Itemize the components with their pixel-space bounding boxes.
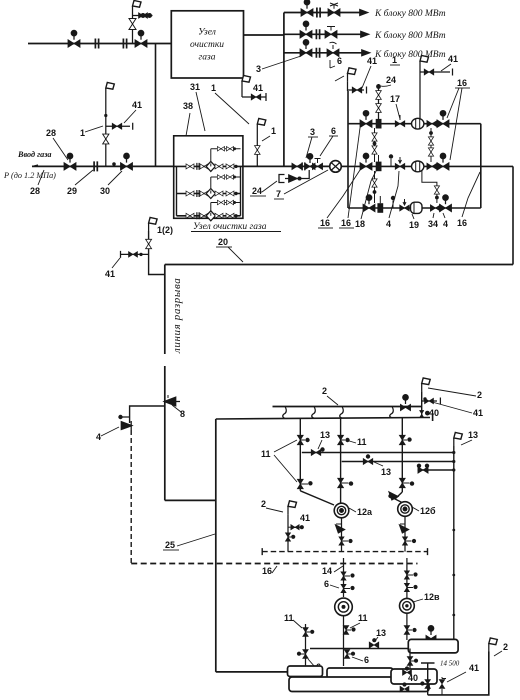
S-drop 2 from manifold (312, 407, 316, 419)
valve 11 on riser x305.5 (303, 628, 315, 637)
lower burner left (335, 598, 353, 616)
svg-text:38: 38 (183, 101, 193, 111)
leader 41 (124, 110, 136, 123)
svg-text:2: 2 (261, 499, 266, 509)
svg-text:41: 41 (469, 663, 479, 673)
wire: stem to lower burner right (406, 558, 408, 598)
label 7 (274, 189, 284, 199)
leader 12v (413, 599, 423, 602)
svg-text:30: 30 (100, 186, 110, 196)
leader 3 (306, 137, 312, 158)
label 20 underlined (216, 237, 232, 247)
leader 41 (441, 64, 451, 71)
valve below 12v (404, 626, 417, 635)
valve 28 with ball on inlet (64, 154, 76, 171)
leader 2 (494, 651, 502, 656)
label 13 (320, 430, 330, 440)
svg-text:4: 4 (443, 219, 448, 229)
wire: tap line right of stem (133, 15, 153, 17)
box U1: gas cleaning unit 1 (171, 11, 243, 78)
leader 16a long diagonal (327, 170, 360, 218)
valve with ball on tap (291, 525, 304, 530)
flag on stem (106, 83, 115, 97)
wire: main inlet line (32, 165, 174, 167)
gauge stem above row2 (389, 154, 393, 166)
wire: left manifold of regulator station (347, 91, 349, 208)
label 11 (left) with two leaders (261, 449, 271, 459)
label: box 1 text (190, 28, 224, 63)
leader 13 riser (461, 440, 472, 445)
S-drop 3 from manifold (340, 407, 344, 419)
tee dot at instrument stem (112, 162, 116, 166)
wire: flag stem down to regulator row1 (419, 69, 421, 119)
svg-text:1: 1 (211, 83, 216, 93)
leader 12a (349, 508, 356, 512)
svg-text:41: 41 (132, 100, 142, 110)
valve on tap (352, 87, 362, 93)
svg-text:12в: 12в (424, 592, 440, 602)
stem with valves between row1-row2 right (428, 128, 433, 162)
wire: burner column 3 (401, 418, 403, 492)
instrument stem with flag item 1 (254, 119, 265, 167)
label 2 (right) (477, 390, 482, 400)
wire: stem to flag (132, 14, 134, 19)
label 13 (riser) (468, 430, 478, 440)
box2 row2: valve d with dot (226, 191, 238, 196)
svg-text:41: 41 (300, 513, 310, 523)
leader 41 (362, 66, 371, 88)
label 6 (left) (316, 662, 321, 672)
flag 2 on manifold east end (422, 378, 431, 392)
S-drop 4 from manifold (390, 407, 394, 418)
row2: filled isolating valve (376, 155, 382, 171)
wire: gas line row a (302, 452, 454, 454)
junction dot on stem (104, 114, 107, 117)
flange pair 29 (94, 161, 97, 171)
svg-text:28: 28 (46, 128, 56, 138)
flag above regulator left manifold (348, 68, 357, 82)
flag item 41 right of box 1 (242, 76, 251, 90)
wire: box2 row 3 (177, 215, 241, 217)
label 38 (183, 101, 193, 111)
arrow branch 2 (361, 32, 368, 37)
wire: tap right of flag stem (420, 69, 453, 76)
label: pressure note (3, 171, 56, 180)
valve with ball pair b (right stem) (404, 583, 417, 591)
leader 25 (177, 534, 215, 546)
svg-text:24: 24 (252, 186, 262, 196)
svg-text:6: 6 (337, 56, 342, 66)
leader 11 (350, 623, 360, 628)
wire: stem below lower-right burner (406, 613, 408, 640)
valve with ball, branch 1 (301, 0, 313, 16)
label 6 (324, 579, 329, 589)
wire: gas line row b (342, 461, 454, 463)
valve with ball, branch 2 (300, 21, 312, 38)
row1: filled isolating valve 18 (376, 112, 382, 129)
wire: burner feed downcomer (215, 419, 217, 672)
label 11 (mid) (357, 437, 367, 447)
valve on tap 41 (423, 397, 433, 404)
label 19 (409, 220, 419, 230)
wire: impulse stem x378.5 (378, 84, 380, 124)
valve 11 below lower-left burner (343, 626, 355, 635)
vertical valve 1 on impulse stem (376, 91, 382, 100)
wire: tap 41 on 1(2) stem (121, 251, 149, 258)
svg-text:Узел очистки газа: Узел очистки газа (193, 222, 267, 232)
leader 16c (462, 172, 480, 217)
ball on branch (118, 415, 122, 419)
flag 2 bottom right (489, 638, 498, 652)
small valve on tap line (139, 13, 152, 19)
row1: outlet valve (427, 120, 437, 126)
label 16 c (457, 218, 467, 228)
igniter angle valve below 12a (336, 524, 344, 533)
flag 2 lower-left (288, 501, 297, 515)
svg-text:13: 13 (381, 467, 391, 477)
leader 2 (266, 508, 283, 512)
leader 29 (75, 170, 93, 185)
svg-text:11: 11 (261, 449, 271, 459)
wire: stem below lower-left burner (343, 616, 345, 666)
label 25 underlined (163, 540, 179, 550)
flag 1(2) left of box2 (149, 218, 158, 232)
valve with ball pair a (right stem) (404, 571, 417, 579)
flange pair branch 3 (316, 48, 319, 58)
label 16 (dashed header) (262, 566, 272, 576)
wire: stem to lower burner left (343, 558, 345, 597)
label 2 (bottom right) (503, 642, 508, 652)
flange pair branch 2 (316, 29, 319, 39)
arrow branch 3 (362, 50, 369, 55)
flow meter circle 7 (330, 161, 342, 173)
box2 row1: valve c (215, 164, 223, 169)
box2 bypass row 1 (211, 146, 241, 161)
leader 2 (327, 396, 338, 405)
wire: tap 41 right of flag stem (422, 398, 441, 405)
wire: instrument stem x105.8 (105, 96, 107, 166)
svg-text:2: 2 (322, 386, 327, 396)
wire: drop from feed line to main line (155, 44, 157, 167)
leader to flag from label 3 area (335, 76, 344, 81)
valve on stem x410 (407, 657, 418, 666)
label 34 (428, 219, 438, 229)
leader 13 (374, 462, 383, 466)
valve on tap (129, 252, 143, 258)
wire: tap line item 41 (106, 123, 133, 130)
vertical valve on 1(2) stem (146, 239, 152, 248)
label 24 (250, 186, 266, 196)
wire: burner manifold 2 (273, 406, 422, 408)
leader 41 (432, 402, 472, 413)
svg-text:41: 41 (253, 83, 263, 93)
svg-text:2: 2 (503, 642, 508, 652)
valve with handwheel on feed line (135, 31, 147, 48)
leader 34 (433, 213, 434, 218)
flange pair at tap tee (123, 39, 126, 49)
row1: outlet valve with ball (437, 111, 449, 128)
leader 19 (412, 214, 414, 219)
box2 row1: flange (197, 163, 199, 170)
label 1 (271, 126, 276, 136)
svg-text:17: 17 (390, 94, 400, 104)
box2 row2: filter diamond (206, 189, 215, 199)
stem with valve between row2-row3 left (372, 171, 377, 203)
valve on tap 41 (112, 123, 122, 129)
label 41 (right of box1) (253, 83, 263, 93)
leader 20 (228, 247, 243, 262)
box2 bypass row 3 (211, 200, 241, 211)
junction dots on riser (452, 451, 455, 616)
box2 row1: valve a (186, 164, 194, 169)
svg-text:7: 7 (276, 189, 281, 199)
wire: box1 outlet to manifold (244, 34, 284, 36)
wire: box2 row 1 (main line through box) (174, 165, 243, 167)
label 41 (132, 100, 142, 110)
row1: small valve 17 (395, 115, 405, 127)
arrow branch 1 (360, 10, 367, 15)
flange pair (95, 39, 98, 49)
vertical valve on stem (103, 134, 109, 144)
svg-text:11: 11 (357, 437, 367, 447)
svg-text:14: 14 (322, 566, 332, 576)
wire: top feed line into box 1 (28, 43, 171, 45)
label 41 (300, 513, 310, 523)
box2 row3: valve c (215, 213, 223, 218)
svg-text:13: 13 (376, 628, 386, 638)
svg-text:28: 28 (30, 186, 40, 196)
label 16 (right, underlined) (455, 78, 470, 88)
svg-text:К блоку 800 МВт: К блоку 800 МВт (374, 49, 446, 60)
wire: distribution manifold vertical (283, 13, 285, 167)
svg-text:16: 16 (457, 218, 467, 228)
label 41 (manifold drain) (367, 56, 377, 66)
stem with valves between row1-row2 left (372, 128, 377, 162)
label: gas inlet (17, 150, 52, 159)
leader 4b (443, 213, 445, 218)
wire: tap right of stem (288, 526, 303, 528)
wire: flag 2 stem down to dashed header (287, 514, 289, 551)
leader 11 (293, 620, 302, 628)
row3: inlet valve with ball (363, 195, 375, 212)
valve 6b on stem x347 lower (344, 650, 355, 659)
label 18 (355, 219, 365, 229)
label 2 (261, 499, 266, 509)
svg-text:4: 4 (96, 432, 101, 442)
svg-text:12б: 12б (420, 506, 436, 516)
label 13 (376, 628, 386, 638)
label: to unit 800MW line 3 (374, 49, 446, 60)
wire: stem x410 below line to box (409, 649, 411, 670)
wire: recycle drop right (512, 166, 514, 264)
row2: pressure regulator (412, 161, 424, 172)
column3 upper valve with ball (399, 435, 411, 445)
svg-text:1: 1 (80, 128, 85, 138)
furnace box C (327, 668, 393, 678)
box2 row3: valve d with dot (226, 213, 238, 218)
wire: branch line 1 (284, 12, 361, 14)
burner 12a (334, 503, 349, 518)
svg-text:4: 4 (386, 219, 391, 229)
label 6 (top) (337, 56, 342, 66)
flag 13 on right riser (454, 433, 463, 447)
svg-text:34: 34 (428, 219, 438, 229)
wire: gas line row c (418, 469, 454, 471)
valve 4 (blow-off) (122, 421, 132, 430)
leader 16b (348, 128, 360, 218)
control valve branch 2 (325, 27, 337, 39)
label 4 a (386, 219, 391, 229)
valve with ball on manifold end (400, 395, 410, 411)
label 11 (left) (284, 613, 294, 623)
svg-text:К блоку 800 МВт: К блоку 800 МВт (374, 30, 446, 41)
svg-text:24: 24 (386, 75, 396, 85)
leader 6 (320, 136, 333, 156)
column1 lower valve with ball (297, 479, 312, 489)
label 14 (322, 566, 332, 576)
leader 6 (330, 60, 335, 68)
label: rupture line (vertical text) (171, 278, 183, 354)
wire: column1 diagonal to burner 12a (300, 491, 334, 505)
row3: small valve with arrow (400, 199, 410, 211)
label 6 (329, 126, 338, 136)
label 12a (357, 507, 373, 517)
box2 row1: valve b (200, 164, 208, 169)
label 28 upper (46, 128, 56, 138)
leader 13 (375, 637, 378, 641)
row1: inlet valve with ball (360, 111, 372, 128)
row1: pressure regulator (412, 118, 424, 129)
box2 bypass row 2 (211, 175, 241, 188)
svg-text:16: 16 (341, 218, 351, 228)
svg-text:8: 8 (180, 409, 185, 419)
label 41 (105, 269, 115, 279)
svg-text:40: 40 (408, 673, 418, 683)
wire: rupture line lower part (164, 366, 166, 500)
svg-text:1: 1 (271, 126, 276, 136)
leader 14 (334, 566, 343, 572)
wire: main line box2 to meter (243, 165, 330, 167)
tick on branch (121, 416, 130, 418)
wire: flag stem and tap line (348, 81, 367, 93)
wire: regulator row 3 (348, 207, 481, 209)
box2 row1: valve d with dot (226, 164, 238, 169)
svg-text:11: 11 (284, 613, 294, 623)
svg-text:41: 41 (448, 54, 458, 64)
valve cluster: flange (302, 162, 305, 170)
wire: burner header line (216, 414, 433, 421)
svg-text:18: 18 (355, 219, 365, 229)
wire: branch line 3 (284, 52, 363, 54)
wire: bottom manifold from downcomer (216, 671, 288, 673)
furnace box A (408, 639, 458, 653)
flag (sampling point) (133, 1, 142, 15)
label 31 (190, 82, 200, 92)
valve with ball pair a (left stem) (341, 572, 355, 580)
igniter angle valve below 12b (400, 524, 408, 533)
svg-text:К блоку 800 МВт: К блоку 800 МВт (374, 8, 446, 19)
valve 41 on drain line (439, 677, 446, 695)
column2 lower valve with ball (338, 478, 354, 488)
column3 lower valve with ball (399, 478, 414, 488)
label 1(2) (157, 225, 173, 235)
leader 41 (112, 258, 120, 268)
valve cluster: gate valve (292, 163, 302, 169)
label 41 (row1 tap) (448, 54, 458, 64)
wire: igniter stem below 12b (404, 517, 406, 552)
svg-text:12а: 12а (357, 507, 373, 517)
bypass row2-row3 right with valve (422, 171, 440, 203)
furnace box B (288, 666, 323, 677)
svg-text:14 500: 14 500 (440, 660, 460, 668)
box2 row2: flange (197, 190, 199, 197)
label 29 (67, 186, 77, 196)
item 40 dot and valve on stem (419, 410, 429, 417)
wire: rupture line upper part (164, 265, 166, 355)
leader 16 (272, 566, 277, 573)
wire: box2 left manifold (176, 166, 178, 215)
flag on regulator row 1 (420, 56, 429, 70)
furnace box E (391, 669, 437, 684)
valve cluster: control valve 6 (312, 159, 322, 170)
svg-text:41: 41 (473, 408, 483, 418)
double valve on row c (417, 464, 429, 474)
inlet tick (32, 165, 38, 167)
svg-text:16: 16 (457, 78, 467, 88)
svg-text:16: 16 (262, 566, 272, 576)
label 1 (80, 128, 85, 138)
label 4 b (443, 219, 448, 229)
label 24 (impulse stem) (386, 75, 396, 85)
box2 row2: valve b (200, 191, 208, 196)
wire: riser x427.7 with top bar (421, 663, 435, 695)
leader 28 lower (38, 170, 44, 185)
wire: stem 1(2) down (149, 231, 165, 275)
label 12v (424, 592, 440, 602)
label: to unit 800MW line 2 (374, 30, 446, 41)
svg-text:2: 2 (477, 390, 482, 400)
gauge stem above row3 (391, 196, 395, 208)
leader 8 (172, 405, 181, 412)
svg-text:16: 16 (320, 218, 330, 228)
label 3 (308, 127, 318, 137)
wire: burner column 2 (340, 418, 342, 503)
svg-text:41: 41 (105, 269, 115, 279)
row3: pressure regulator (reserve) (411, 202, 423, 213)
valve 8 (pressure relief to vent) (165, 395, 180, 406)
valve with ball near box A (426, 626, 436, 642)
label 3 (top) (256, 64, 261, 74)
lower burner right 12v (400, 598, 415, 613)
valve 13 on row b (363, 454, 373, 464)
label 4 (96, 432, 101, 442)
wire: tap under flag 41 (242, 89, 266, 101)
svg-text:19: 19 (409, 220, 419, 230)
valve 13 on row a (311, 447, 324, 455)
label 40 (408, 673, 418, 683)
box2 row3: valve a (186, 213, 194, 218)
svg-text:31: 31 (190, 82, 200, 92)
svg-text:13: 13 (320, 430, 330, 440)
leader 13 (318, 440, 322, 449)
svg-text:6: 6 (331, 126, 336, 136)
valve on tap (424, 69, 434, 75)
vertical valve with ball on stem (285, 533, 295, 541)
svg-text:Р (до 1.2 МПа): Р (до 1.2 МПа) (3, 171, 56, 180)
label 41 (right) (473, 408, 483, 418)
column2 upper valve with ball (338, 435, 350, 445)
svg-text:Узел: Узел (198, 28, 216, 38)
